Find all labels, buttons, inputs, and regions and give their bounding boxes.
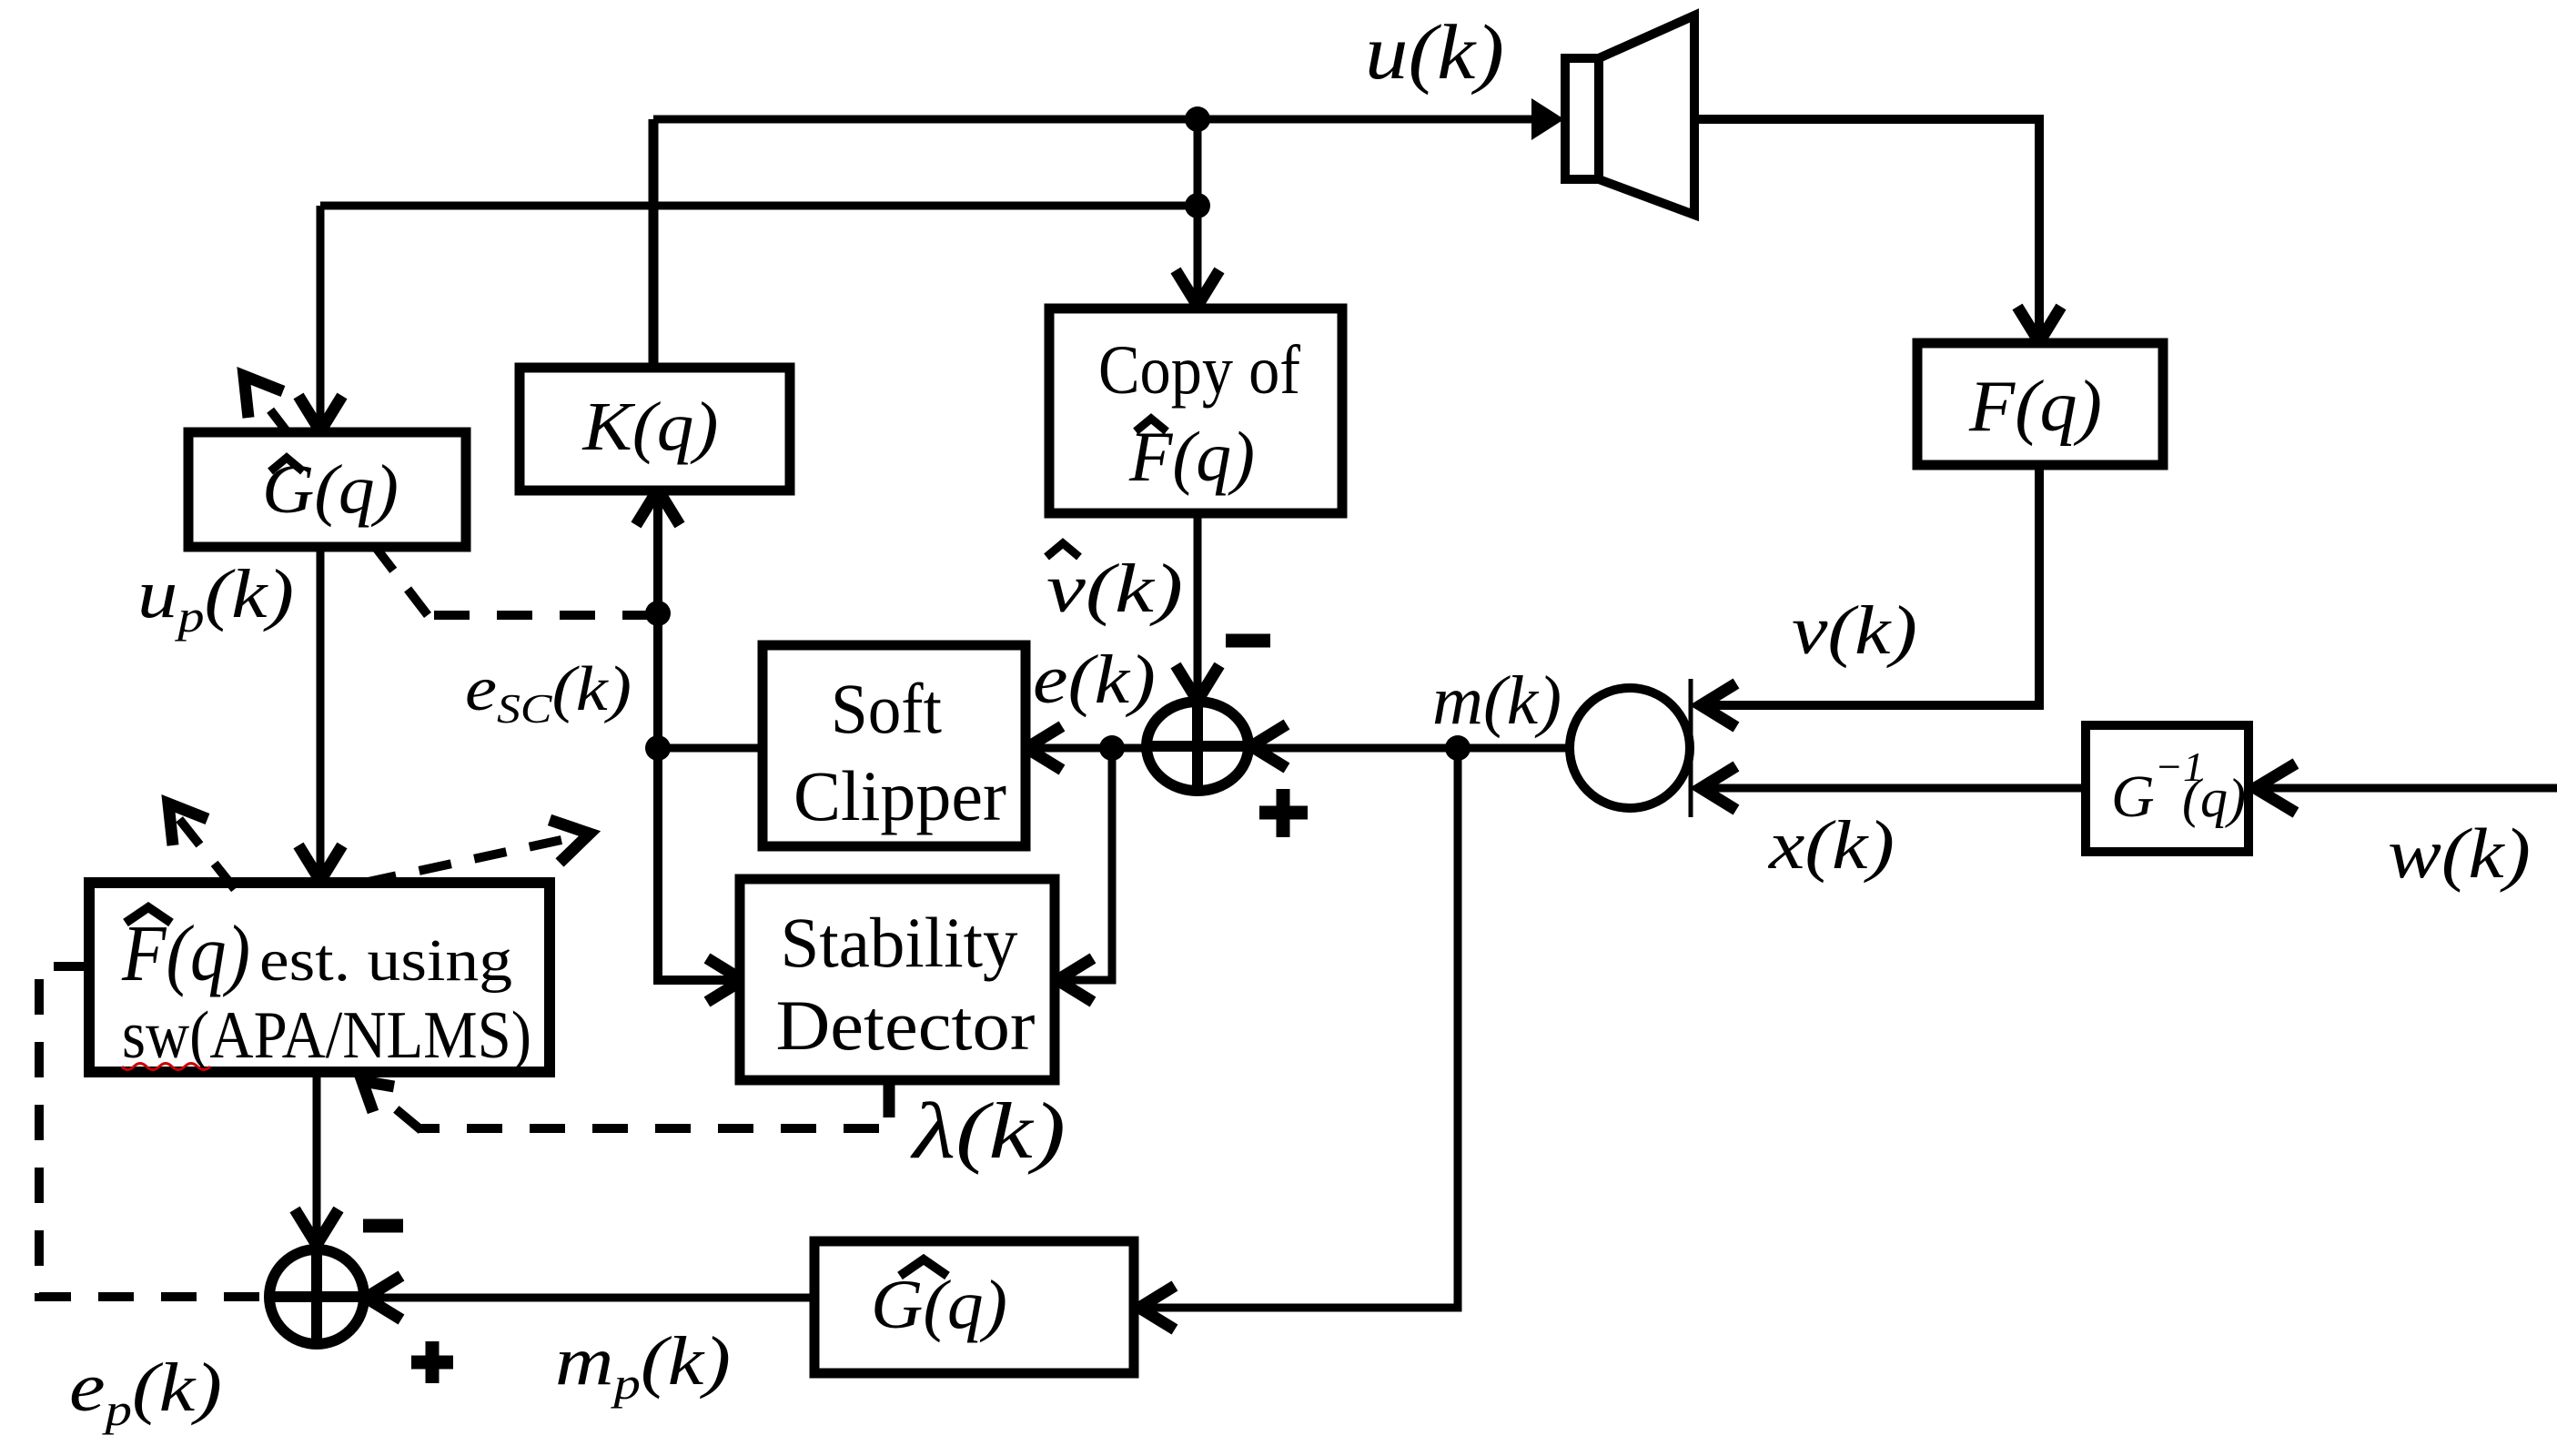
arrowhead adaptation top-right [550, 820, 590, 863]
F-hat est. using box [89, 883, 550, 1072]
node junction dot e(k) [1099, 735, 1125, 761]
svg-text:(q): (q) [2182, 768, 2246, 828]
wire v-hat from Copy box down to sum [1194, 512, 1202, 700]
svg-text:x(k): x(k) [1768, 807, 1895, 884]
svg-text:v(k): v(k) [1792, 592, 1917, 669]
Stability Detector box [740, 879, 1055, 1080]
svg-text:K(q): K(q) [581, 389, 718, 465]
wire second horizontal to G-hat [320, 202, 1198, 210]
minus sign at sum [1226, 634, 1270, 648]
arrowhead into F(q) [2017, 307, 2061, 342]
summing junction e(k) [1147, 702, 1248, 791]
wire m(k) from microphone to sum [1259, 744, 1572, 753]
svg-text:F(q): F(q) [1128, 417, 1255, 496]
wire e_sc from Soft Clipper to vertical [658, 744, 763, 753]
hat of F-hat in Copy box [1136, 419, 1167, 431]
arrowhead into bottom G-hat [1139, 1286, 1175, 1330]
arrowhead e(k) into Soft Clipper [1026, 726, 1062, 770]
G-hat (q) upper box [188, 432, 466, 547]
dashed e_p feedback line [39, 966, 264, 1297]
lambda stub from Stability Detector [884, 1078, 895, 1117]
wire from F-hat est box down to e_p sum [313, 1072, 321, 1243]
arrowhead into loudspeaker [1531, 98, 1564, 140]
arrowhead into Copy box [1176, 270, 1219, 306]
hat of G-hat upper [270, 458, 303, 471]
dashed adaptation arrow through G-hat [428, 611, 658, 620]
wire m_p(k) from bottom G-hat to e_p sum [369, 1294, 814, 1302]
arrowhead v-hat into sum [1176, 665, 1219, 701]
svg-text:up(k): up(k) [137, 556, 294, 642]
arrowhead into G-hat top [298, 396, 342, 431]
svg-text:e(k): e(k) [1033, 642, 1156, 718]
wire from m(k) node down to bottom G-hat [1147, 748, 1458, 1308]
microphone symbol [1570, 688, 1690, 808]
minus sign at e_p sum [363, 1219, 403, 1233]
svg-text:Stability: Stability [781, 903, 1018, 982]
node junction dot e_sc upper [645, 601, 671, 626]
arrowhead lambda into F-hat est box [362, 1081, 394, 1112]
svg-text:mp(k): mp(k) [555, 1323, 731, 1409]
arrowhead into F-hat est box [298, 845, 342, 881]
svg-text:sw(APA/NLMS): sw(APA/NLMS) [122, 998, 531, 1073]
svg-text:ep(k): ep(k) [69, 1350, 222, 1435]
hat of v-hat(k) [1046, 543, 1079, 557]
wire w(k) into G-inverse [2257, 784, 2557, 793]
wire from e(k) node down to Stability Detector right [1061, 748, 1112, 980]
arrowhead x(k) into microphone [1701, 766, 1736, 810]
wire u_p(k) from G-hat down to F-hat est box [317, 547, 325, 875]
dashed lambda line from Stability Detector to F-hat est box [419, 1124, 879, 1133]
wire vertical down to G-hat top [317, 206, 325, 426]
wire v(k) from F(q) to microphone [1709, 465, 2039, 705]
svg-text:λ(k): λ(k) [909, 1087, 1066, 1176]
svg-text:F(q): F(q) [121, 910, 250, 998]
arrowhead m(k) into sum [1251, 724, 1287, 768]
wire x(k) from G-inverse to microphone [1709, 784, 2087, 793]
dashed adaptation arrow top-left of F-hat est box [168, 805, 235, 889]
hat of G-hat bottom [900, 1259, 947, 1276]
node junction dot on u(k) line [1185, 106, 1210, 132]
arrowhead w(k) into G-inverse [2255, 763, 2296, 813]
dashed adaptation arrow top-right of F-hat est box [364, 835, 582, 883]
arrowhead into Stability Detector left [707, 958, 743, 1002]
svg-text:u(k): u(k) [1365, 8, 1504, 96]
wire e_sc vertical up to K(q) and down to Stability Detector [658, 493, 739, 980]
arrowhead v(k) into microphone [1701, 683, 1736, 727]
loudspeaker symbol [1565, 15, 1694, 215]
svg-text:Copy of: Copy of [1098, 332, 1301, 409]
plus sign at e_p sum [411, 1341, 453, 1383]
wire vertical from u(k) line down to K(q) [649, 119, 659, 369]
svg-text:G(q): G(q) [871, 1267, 1007, 1343]
arrowhead adaptation top-left [168, 804, 207, 845]
G-hat (q) bottom box [814, 1241, 1134, 1373]
arrowhead of G-hat adaptation arrow [244, 376, 283, 418]
wire from loudspeaker to F(q) [1694, 119, 2039, 339]
G-inverse box [2086, 725, 2249, 852]
plus sign at sum [1259, 789, 1308, 837]
arrowhead up into K(q) [636, 490, 680, 525]
wire u(k) top horizontal [653, 116, 1558, 124]
svg-text:G: G [2111, 763, 2155, 830]
arrowhead m_p into e_p sum [366, 1276, 401, 1319]
svg-text:Detector: Detector [776, 986, 1036, 1065]
svg-text:m(k): m(k) [1432, 662, 1561, 739]
node junction dot on second line [1185, 193, 1210, 218]
F(q) box [1917, 343, 2163, 465]
arrowhead into e_p sum [295, 1209, 339, 1245]
wire vertical down to Copy of F-hat [1194, 119, 1202, 300]
K(q) box [520, 368, 790, 490]
Soft Clipper box [763, 645, 1026, 846]
summing junction e_p [269, 1249, 364, 1344]
node junction dot e_sc at clipper output [645, 735, 671, 761]
hat of F-hat est [126, 907, 171, 923]
arrowhead into Stability Detector right [1057, 958, 1093, 1002]
svg-text:v(k): v(k) [1046, 551, 1183, 627]
node junction dot m(k) [1445, 735, 1471, 761]
svg-text:F(q): F(q) [1968, 367, 2102, 447]
Copy of F-hat box [1049, 308, 1342, 513]
svg-text:Clipper: Clipper [793, 756, 1006, 835]
red squiggle under sw [122, 1064, 210, 1070]
svg-text:est. using: est. using [259, 927, 512, 994]
wire e(k) from sum to Soft Clipper [1032, 744, 1147, 753]
svg-text:Soft: Soft [831, 669, 942, 748]
svg-text:w(k): w(k) [2388, 814, 2531, 893]
